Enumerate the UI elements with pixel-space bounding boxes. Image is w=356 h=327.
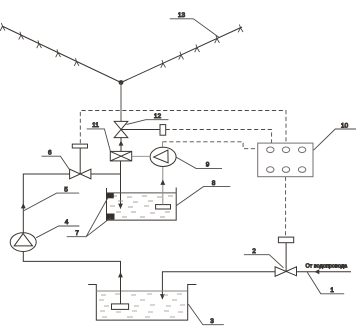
leader label 3 xyxy=(188,304,224,325)
svg-text:5: 5 xyxy=(64,186,68,193)
flow arrow up to valve 6 xyxy=(21,203,26,208)
wire fill pipe valve 2 to tank 3 xyxy=(162,272,275,299)
leader label 9 xyxy=(176,157,222,168)
wire pump 4 up to valve 6 xyxy=(23,174,69,233)
box with X (label 11) xyxy=(110,151,131,161)
wire riser from junction to valve 12 xyxy=(120,83,122,122)
svg-text:9: 9 xyxy=(206,161,210,168)
leader label 6 xyxy=(42,156,70,170)
svg-text:13: 13 xyxy=(178,12,186,19)
actuator of valve 2 xyxy=(278,237,293,243)
wire box 11 to pump 9 xyxy=(132,155,150,157)
valve 2 (horizontal bowtie) xyxy=(275,267,296,277)
valve (label 12, vertical bowtie) xyxy=(114,121,128,137)
controller box U10 xyxy=(258,143,313,177)
flow arrow up into valve 12 xyxy=(119,140,124,145)
wire control dashed: controller bottom to valve 2 actuator xyxy=(285,177,287,237)
sprinkler S4 xyxy=(56,49,61,57)
suction strainer in tank 8 xyxy=(156,205,171,209)
pump P4 xyxy=(10,233,36,252)
flow arrow up to pump 9 xyxy=(160,180,165,185)
tank 3 water line xyxy=(96,290,187,292)
wire suction pipe tank 3 to pump 4 xyxy=(23,251,120,304)
sprinkler S3 xyxy=(37,40,42,48)
leader label 8 xyxy=(177,187,231,206)
tank 8 water line xyxy=(107,192,177,194)
wire control dashed: pump 9 to controller left xyxy=(162,142,164,148)
level sensor lower (black square) xyxy=(106,214,114,220)
pump P9 xyxy=(150,147,176,166)
wire sprinkler lateral right xyxy=(121,27,242,83)
wire suction pipe tank 8 to pump 9 xyxy=(162,166,164,204)
valve 6 (horizontal bowtie) xyxy=(70,169,91,179)
sprinkler S6 xyxy=(161,60,166,68)
leader label 7 xyxy=(67,198,111,237)
tank 8 xyxy=(107,188,177,221)
svg-text:3: 3 xyxy=(210,318,214,325)
wire control dashed: valve 6 actuator to controller top xyxy=(80,111,286,144)
tank 3 xyxy=(88,285,196,321)
wire valve 12 to box 11 xyxy=(120,138,122,152)
svg-text:8: 8 xyxy=(212,180,216,187)
leader label 4 xyxy=(36,226,79,238)
sprinkler S1 xyxy=(0,23,5,31)
flow arrow from water supply xyxy=(315,269,320,274)
leader label 12 xyxy=(127,120,169,125)
svg-text:4: 4 xyxy=(65,219,69,226)
suction strainer in tank 3 xyxy=(112,304,129,310)
wire valve 6 to tee over tank 8 xyxy=(91,173,121,175)
wire valve 12 to sensor 12 xyxy=(121,129,160,131)
svg-text:2: 2 xyxy=(252,248,256,255)
tank 3 water dashes xyxy=(99,294,185,317)
flow arrow down into tank 3 xyxy=(160,294,165,299)
svg-text:12: 12 xyxy=(154,113,162,120)
wire sprinkler lateral left xyxy=(2,26,121,83)
svg-text:7: 7 xyxy=(75,230,79,237)
sprinkler S5 xyxy=(74,58,79,66)
svg-text:1: 1 xyxy=(330,287,334,294)
level sensor upper (black square) xyxy=(107,193,114,198)
sprinkler S8 xyxy=(195,44,200,52)
leader label 10 xyxy=(314,129,356,150)
flow arrow up in suction pipe xyxy=(118,272,123,277)
wire control dashed: sensor to controller top xyxy=(166,130,272,144)
tank 8 water dashes xyxy=(110,196,173,217)
wire supply pipe right of valve 2 xyxy=(297,271,352,273)
leader label 11 xyxy=(87,129,111,151)
leader label 2 xyxy=(244,255,284,268)
svg-text:10: 10 xyxy=(341,122,349,129)
sprinkler S2 xyxy=(19,32,24,40)
leader label 1 xyxy=(307,272,344,294)
wire tee down into tank 8 xyxy=(120,174,122,209)
sprinkler S9 xyxy=(215,35,220,43)
svg-text:От водопровода: От водопровода xyxy=(306,263,348,269)
svg-text:11: 11 xyxy=(92,122,99,129)
svg-text:6: 6 xyxy=(48,149,52,156)
wire box 11 down to tee xyxy=(120,161,122,174)
leader label 13 xyxy=(170,19,219,38)
node manifold junction xyxy=(119,80,124,85)
flow arrow down into tank 8 xyxy=(118,204,123,209)
actuator of valve 6 xyxy=(79,148,81,174)
sprinkler S7 xyxy=(179,52,184,60)
sprinkler S10 xyxy=(238,25,243,33)
leader label 5 xyxy=(24,193,79,211)
sensor (small rect right of valve) xyxy=(160,125,166,136)
